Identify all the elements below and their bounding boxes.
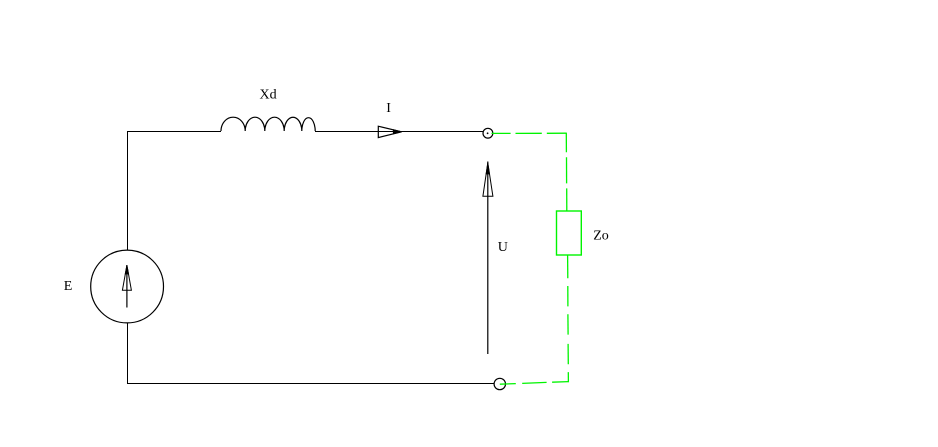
- wire: green dashed bottom: [500, 382, 569, 385]
- svg-text:I: I: [386, 101, 391, 116]
- wire: [127, 131, 129, 384]
- wire: [127, 131, 221, 133]
- svg-text:E: E: [64, 279, 73, 294]
- wire: green dashed top: [492, 132, 567, 134]
- voltage arrow U: [483, 162, 493, 355]
- node: top terminal: [483, 128, 493, 138]
- wire: green dashed right lower: [567, 255, 570, 382]
- wire: [315, 131, 484, 133]
- resistor Zo: [557, 211, 582, 255]
- svg-text:Zo: Zo: [593, 228, 609, 243]
- voltage source E: [91, 250, 164, 323]
- wire: green dashed right upper: [565, 133, 568, 211]
- wire: [127, 383, 494, 385]
- current arrow I: [378, 126, 401, 137]
- svg-text:U: U: [498, 240, 508, 255]
- svg-text:Xd: Xd: [260, 88, 277, 103]
- inductor Xd: [221, 117, 315, 131]
- node: bottom terminal: [494, 378, 505, 389]
